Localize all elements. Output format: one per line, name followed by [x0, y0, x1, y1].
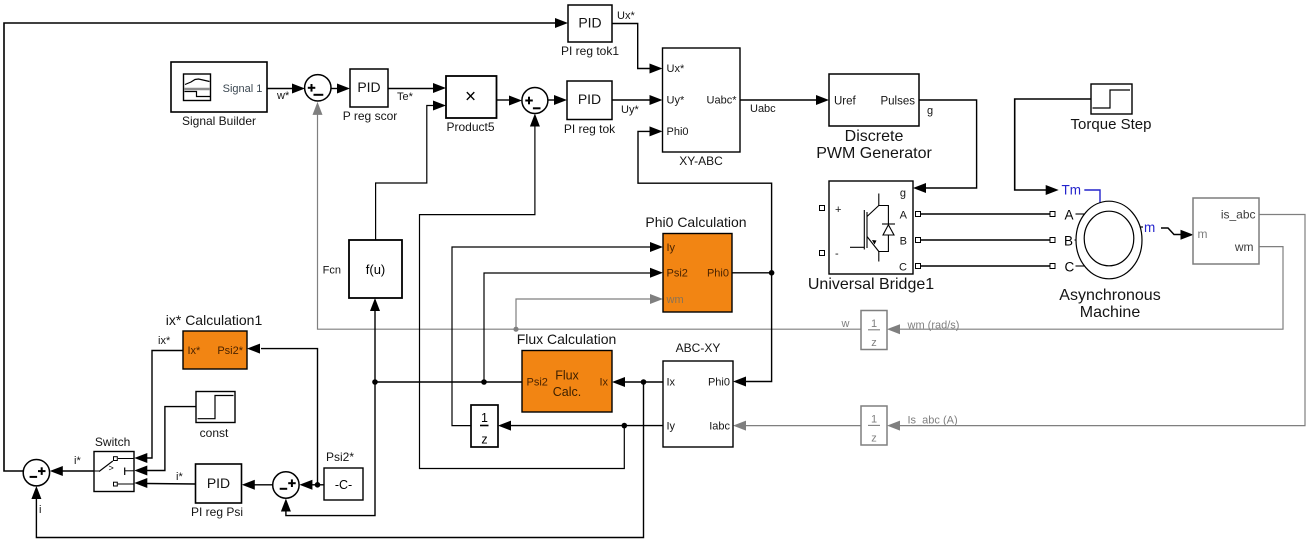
- wire Is_abc gray into ABC-XY Iabc: [733, 421, 861, 431]
- arrow into 1z gray 1: [887, 324, 900, 334]
- svg-text:ix*: ix*: [158, 335, 171, 347]
- svg-text:Flux Calculation: Flux Calculation: [517, 331, 617, 347]
- svg-text:Calc.: Calc.: [553, 385, 581, 399]
- svg-text:PI reg tok: PI reg tok: [564, 122, 616, 136]
- svg-text:wm: wm: [1234, 240, 1254, 254]
- wire Iy from ABC-XY to unit delay: [498, 421, 663, 431]
- block is_abc: [1193, 198, 1259, 264]
- node m (blue) and wire to is_abc: [1140, 220, 1194, 240]
- wire phase B: [921, 239, 1051, 241]
- svg-text:Uy*: Uy*: [621, 104, 639, 116]
- block Discrete PWM Generator: [816, 74, 932, 162]
- wire S1 to P reg scor: [331, 84, 350, 94]
- wire const to switch: [134, 407, 196, 476]
- block unit delay gray 1 (wm): [841, 311, 960, 350]
- svg-text:z: z: [481, 433, 487, 447]
- wire Phi0 to XY-ABC: [638, 126, 772, 272]
- svg-text:PID: PID: [578, 91, 601, 107]
- svg-text:Ux*: Ux*: [617, 10, 635, 22]
- svg-text:Universal Bridge1: Universal Bridge1: [808, 276, 934, 293]
- svg-text:PID: PID: [357, 79, 380, 95]
- arrow into 1z gray 2: [887, 421, 900, 431]
- block Product5: [446, 76, 497, 134]
- svg-text:1: 1: [481, 411, 488, 425]
- svg-text:w*: w*: [276, 90, 290, 102]
- block unit delay 1/z: [471, 405, 498, 447]
- svg-text:Uy*: Uy*: [667, 95, 685, 107]
- block P reg scor (PID): [343, 69, 397, 123]
- wire is_abc out (gray loop right): [900, 215, 1305, 426]
- svg-text:B: B: [1064, 234, 1073, 249]
- wire Ix from ABC-XY to Flux Calc: [612, 377, 663, 387]
- svg-text:Psi2*: Psi2*: [326, 450, 354, 464]
- wire i* PID to switch: [134, 471, 195, 488]
- svg-text:Switch: Switch: [95, 435, 130, 449]
- wire S3 to PID Psi: [242, 480, 273, 490]
- machine ports squares: [1050, 212, 1055, 269]
- svg-text:Machine: Machine: [1080, 304, 1141, 321]
- svg-text:P reg scor: P reg scor: [343, 109, 397, 123]
- wire Phi0 to ABC-XY: [733, 273, 772, 387]
- block Asynchronous Machine: [1059, 201, 1160, 321]
- svg-text:Psi2*: Psi2*: [217, 345, 243, 357]
- svg-text:Uabc*: Uabc*: [707, 95, 738, 107]
- junction wm gray: [513, 327, 518, 332]
- svg-text:PID: PID: [207, 475, 230, 491]
- svg-text:Fcn: Fcn: [323, 265, 341, 277]
- block unit delay gray 2 (Is_abc): [861, 406, 958, 445]
- svg-text:PID: PID: [578, 15, 601, 31]
- svg-text:Iy: Iy: [667, 421, 676, 433]
- wire g pulses: [913, 100, 977, 193]
- svg-text:PI reg Psi: PI reg Psi: [191, 505, 243, 519]
- svg-text:1: 1: [871, 318, 877, 330]
- wire phase C: [921, 265, 1051, 267]
- wire Uabc: [740, 95, 829, 115]
- svg-text:z: z: [871, 337, 877, 349]
- svg-text:ix* Calculation1: ix* Calculation1: [166, 312, 263, 328]
- block Switch: [94, 435, 134, 492]
- bridge igbt diode icon: [850, 194, 895, 262]
- svg-text:Te*: Te*: [397, 91, 414, 103]
- block Torque Step: [1071, 84, 1152, 133]
- svg-text:-: -: [835, 248, 839, 260]
- svg-text:1: 1: [871, 414, 877, 426]
- block Signal Builder: [171, 62, 267, 128]
- block const: [196, 392, 235, 441]
- svg-text:B: B: [900, 236, 907, 248]
- svg-text:Ix: Ix: [599, 377, 608, 389]
- node Tm (blue): [1062, 183, 1101, 203]
- svg-text:Phi0: Phi0: [667, 126, 689, 138]
- svg-text:Iy: Iy: [667, 242, 676, 254]
- block Universal Bridge1: [808, 181, 934, 293]
- svg-text:Torque Step: Torque Step: [1071, 116, 1152, 133]
- svg-text:Uref: Uref: [834, 96, 857, 108]
- wire wm branch to Phi0 Calculation (gray): [516, 294, 663, 329]
- block ix* Calculation1 (orange): [166, 312, 263, 369]
- svg-text:Is_abc (A): Is_abc (A): [908, 415, 958, 427]
- svg-text:A: A: [900, 210, 908, 222]
- wire Product5 to S2: [497, 96, 523, 106]
- svg-text:Phi0: Phi0: [708, 377, 730, 389]
- wire Psi2 branch to Phi0 Calc Psi2: [484, 268, 663, 382]
- wire Ux*: [612, 10, 663, 74]
- wire wm out (gray): [900, 247, 1283, 330]
- sum S2: [522, 88, 548, 114]
- wire sum_left output to PI reg tok1 (outer loop): [4, 18, 568, 471]
- svg-text:+: +: [835, 204, 841, 216]
- wire switch output i* to sum_left: [50, 455, 94, 476]
- svg-text:i: i: [39, 504, 41, 516]
- wire phase A: [921, 213, 1051, 215]
- block Phi0 Calculation (orange): [645, 214, 746, 312]
- svg-text:w: w: [841, 318, 850, 330]
- wire Psi2 output of Flux Calc: [372, 379, 522, 385]
- wire S2 to PI reg tok: [548, 95, 567, 105]
- wire i feedback (Ix down to sum_left): [31, 382, 643, 538]
- svg-text:A: A: [1065, 208, 1074, 223]
- svg-text:Tm: Tm: [1062, 183, 1082, 198]
- svg-text:Ix: Ix: [667, 377, 676, 389]
- wire Te*: [388, 83, 446, 103]
- svg-text:XY-ABC: XY-ABC: [679, 154, 723, 168]
- block PI reg Psi (PID): [191, 464, 243, 519]
- wire Psi2 up to Fcn: [370, 298, 380, 382]
- svg-text:Phi0: Phi0: [707, 268, 729, 280]
- svg-text:Psi2: Psi2: [667, 268, 688, 280]
- svg-text:g: g: [927, 105, 933, 117]
- wire Psi2* up to ix* Calculation1: [247, 344, 318, 485]
- svg-text:ABC-XY: ABC-XY: [676, 341, 721, 355]
- svg-text:Uabc: Uabc: [750, 103, 776, 115]
- svg-text:Pulses: Pulses: [880, 96, 915, 108]
- svg-text:C: C: [1065, 260, 1075, 275]
- svg-text:wm (rad/s): wm (rad/s): [907, 320, 960, 332]
- svg-text:Discrete: Discrete: [845, 128, 904, 145]
- svg-text:m: m: [1198, 227, 1208, 241]
- svg-text:PI reg tok1: PI reg tok1: [561, 44, 619, 58]
- block XY-ABC: [663, 48, 741, 168]
- wire wm feedback (gray) to S1: [313, 102, 862, 329]
- wire Phi0 output with junction: [732, 270, 774, 276]
- sum S1: [305, 75, 331, 101]
- wire Iy feedback to S2: [420, 114, 625, 469]
- sum S3: [273, 472, 299, 498]
- block PI reg tok1 (PID): [561, 5, 619, 58]
- svg-text:i*: i*: [74, 455, 81, 467]
- wire Uy*: [612, 95, 663, 116]
- wire Fcn output to Product5: [376, 101, 446, 241]
- svg-text:Psi2: Psi2: [527, 377, 548, 389]
- svg-text:Phi0 Calculation: Phi0 Calculation: [645, 214, 746, 230]
- block -C- constant Psi2*: [324, 450, 363, 500]
- svg-text:const: const: [200, 426, 229, 440]
- sum S_left: [23, 460, 49, 517]
- wire Psi2 down to sum3: [281, 382, 375, 516]
- svg-text:wm: wm: [666, 294, 684, 306]
- svg-text:-C-: -C-: [335, 478, 352, 492]
- wire delayed Iy to Phi0 Calc: [452, 242, 663, 426]
- svg-text:m: m: [1144, 220, 1155, 235]
- svg-text:g: g: [900, 188, 906, 200]
- svg-text:Flux: Flux: [555, 369, 579, 383]
- svg-text:Product5: Product5: [446, 120, 494, 134]
- svg-text:×: ×: [465, 87, 476, 108]
- svg-text:C: C: [899, 262, 907, 274]
- block Flux Calculation (orange): [517, 331, 617, 412]
- wire torque step to Tm: [1015, 99, 1091, 195]
- bridge ports squares: [820, 206, 921, 269]
- svg-text:is_abc: is_abc: [1221, 208, 1256, 222]
- svg-text:Iabc: Iabc: [709, 421, 730, 433]
- svg-text:PWM Generator: PWM Generator: [816, 145, 932, 162]
- svg-text:z: z: [871, 433, 877, 445]
- svg-text:f(u): f(u): [366, 262, 386, 277]
- svg-text:Signal 1: Signal 1: [223, 83, 263, 95]
- svg-text:Signal Builder: Signal Builder: [182, 114, 256, 128]
- svg-text:>: >: [109, 463, 114, 473]
- wire ix* to switch: [134, 335, 183, 463]
- svg-text:Ux*: Ux*: [667, 63, 685, 75]
- wire -C- to S3 with junction: [299, 480, 324, 490]
- svg-text:i*: i*: [176, 471, 183, 483]
- svg-text:Ix*: Ix*: [188, 345, 202, 357]
- block PI reg tok (PID): [564, 81, 616, 136]
- svg-text:Asynchronous: Asynchronous: [1059, 287, 1160, 304]
- block Fcn f(u): [323, 240, 402, 298]
- block ABC-XY: [663, 341, 733, 447]
- wire w*: [267, 84, 305, 103]
